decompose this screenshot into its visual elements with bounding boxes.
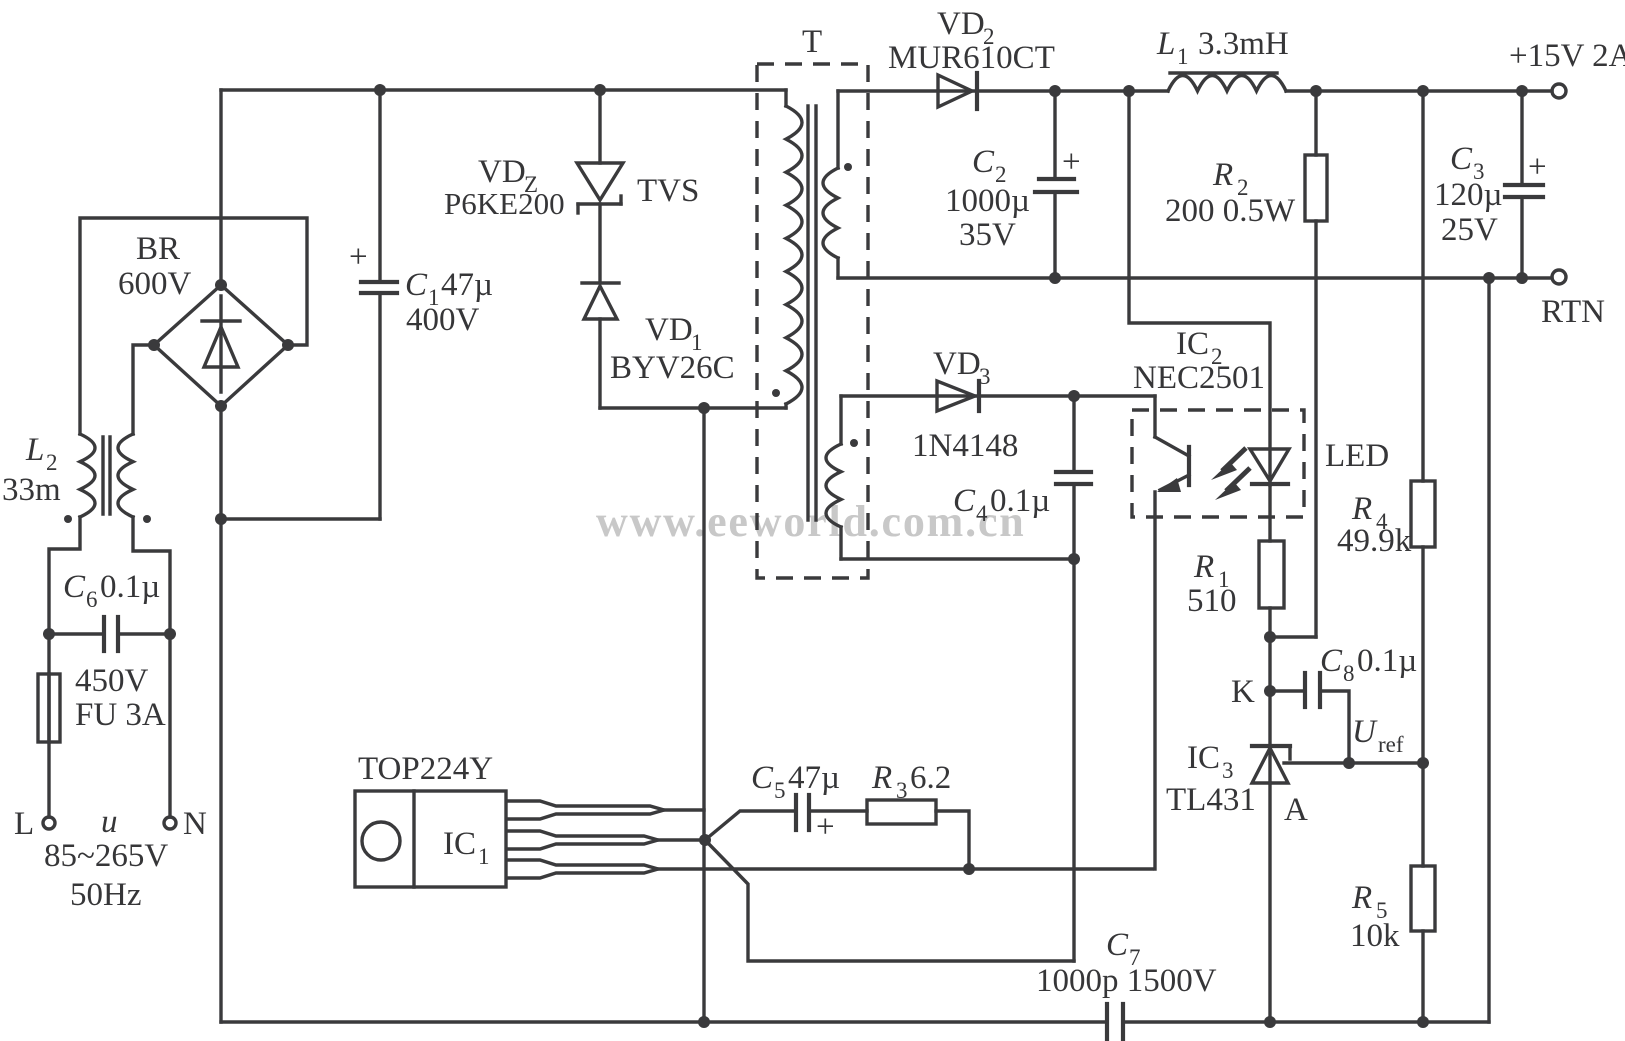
node K bbox=[1264, 685, 1276, 697]
capacitor C6 bbox=[43, 617, 176, 651]
node junction C4 bottom bbox=[1068, 553, 1080, 565]
svg-text:510: 510 bbox=[1187, 583, 1237, 619]
svg-text:P6KE200: P6KE200 bbox=[444, 186, 565, 221]
resistor R2 bbox=[1305, 91, 1327, 637]
optocoupler IC2 dashed box bbox=[1132, 410, 1304, 517]
svg-text:+: + bbox=[1528, 149, 1547, 185]
svg-text:BYV26C: BYV26C bbox=[610, 350, 735, 386]
wire RTN to bottom right bbox=[1487, 278, 1490, 1022]
svg-text:L: L bbox=[14, 806, 34, 842]
svg-text:LED: LED bbox=[1325, 438, 1389, 474]
svg-text:50Hz: 50Hz bbox=[70, 877, 141, 913]
node junction C3 bottom bbox=[1516, 272, 1528, 284]
node junction R5 rail bbox=[1417, 1016, 1429, 1028]
terminal +15V 2A bbox=[1552, 84, 1566, 98]
svg-text:3: 3 bbox=[1222, 758, 1234, 783]
wire pin1 to drain line bbox=[664, 808, 704, 811]
svg-text:600V: 600V bbox=[118, 266, 192, 302]
opto phototransistor bbox=[1155, 437, 1189, 869]
svg-text:0.1µ: 0.1µ bbox=[990, 483, 1050, 519]
svg-text:5: 5 bbox=[774, 778, 786, 803]
node junction R4/R5 bbox=[1417, 757, 1429, 769]
wire C1 bottom horizontal bbox=[221, 517, 380, 520]
capacitor C5 bbox=[796, 795, 835, 845]
shunt regulator IC3 TL431 bbox=[1252, 691, 1290, 1022]
svg-text:T: T bbox=[802, 24, 822, 60]
svg-text:3: 3 bbox=[896, 778, 908, 803]
svg-text:49.9k: 49.9k bbox=[1337, 523, 1412, 559]
svg-text:4: 4 bbox=[976, 501, 988, 526]
node junction drain wire top bbox=[698, 402, 710, 414]
pin 1 drain bbox=[506, 801, 664, 819]
svg-text:C: C bbox=[953, 483, 976, 519]
node source junction bbox=[699, 834, 711, 846]
svg-text:IC: IC bbox=[1187, 740, 1220, 776]
wire bridge right vertex to L2 left winding bbox=[80, 218, 307, 434]
svg-text:IC: IC bbox=[1176, 326, 1209, 362]
svg-text:C: C bbox=[1106, 927, 1129, 963]
svg-text:+: + bbox=[349, 239, 368, 275]
transformer lower secondary winding bbox=[826, 396, 858, 559]
wire bridge left vertex to L2 right winding bbox=[133, 345, 154, 434]
svg-text:BR: BR bbox=[136, 231, 180, 267]
wire R3 to control line bbox=[936, 811, 969, 869]
svg-text:N: N bbox=[183, 806, 207, 842]
wire C5 to R3 bbox=[811, 809, 867, 812]
bottom rail right segment bbox=[1123, 1020, 1489, 1023]
transformer core bbox=[806, 106, 809, 520]
wire source to bias return bbox=[705, 840, 1074, 961]
secondary top rail bbox=[838, 89, 1168, 92]
wire source to C5 branch bbox=[705, 811, 794, 840]
svg-text:L: L bbox=[25, 432, 44, 468]
svg-text:R: R bbox=[1351, 880, 1372, 916]
wire lower secondary return bbox=[841, 557, 1074, 560]
svg-text:35V: 35V bbox=[959, 217, 1016, 253]
svg-text:R: R bbox=[871, 760, 892, 796]
svg-text:K: K bbox=[1231, 674, 1255, 710]
svg-text:IC: IC bbox=[443, 826, 476, 862]
RTN rail bbox=[838, 276, 1552, 279]
svg-text:A: A bbox=[1284, 792, 1308, 828]
wire L2 right winding to C6/N bbox=[133, 517, 170, 634]
svg-text:0.1µ: 0.1µ bbox=[1357, 643, 1417, 679]
svg-text:R: R bbox=[1193, 549, 1214, 585]
svg-text:C: C bbox=[1450, 141, 1473, 177]
svg-text:VD: VD bbox=[478, 154, 526, 190]
transformer T dashed box bbox=[757, 64, 868, 578]
svg-text:C: C bbox=[972, 144, 995, 180]
node junction R1/R2 bottom bbox=[1264, 631, 1276, 643]
TVS diode VDz bbox=[577, 84, 623, 213]
transformer primary winding bbox=[772, 90, 802, 408]
capacitor C3 bbox=[1505, 91, 1547, 278]
resistor R3 bbox=[867, 800, 936, 824]
svg-text:6.2: 6.2 bbox=[910, 760, 951, 796]
svg-text:450V: 450V bbox=[75, 663, 149, 699]
svg-text:1000p 1500V: 1000p 1500V bbox=[1036, 963, 1217, 999]
svg-text:VD: VD bbox=[645, 312, 693, 348]
svg-text:R: R bbox=[1212, 157, 1233, 193]
svg-text:3: 3 bbox=[979, 364, 991, 389]
svg-text:0.1µ: 0.1µ bbox=[100, 569, 160, 605]
svg-text:1N4148: 1N4148 bbox=[912, 428, 1018, 464]
transformer upper secondary winding bbox=[823, 91, 852, 278]
diode VD2 bbox=[938, 73, 977, 109]
svg-text:L: L bbox=[1156, 26, 1175, 62]
svg-text:+15V 2A: +15V 2A bbox=[1509, 38, 1625, 74]
diode VD1 BYV26C bbox=[582, 204, 619, 408]
svg-text:120µ: 120µ bbox=[1434, 177, 1503, 213]
svg-text:ref: ref bbox=[1378, 732, 1404, 757]
svg-text:TOP224Y: TOP224Y bbox=[358, 751, 493, 787]
svg-text:C: C bbox=[405, 267, 428, 303]
node junction right return bbox=[1483, 272, 1495, 284]
capacitor C1 bbox=[349, 84, 397, 519]
inductor L1 bbox=[1168, 76, 1286, 92]
svg-text:VD: VD bbox=[937, 6, 985, 42]
svg-text:1: 1 bbox=[478, 844, 490, 869]
node junction drain-source rail bbox=[698, 1016, 710, 1028]
svg-text:+: + bbox=[816, 809, 835, 845]
resistor R1 bbox=[1259, 541, 1284, 691]
svg-text:1000µ: 1000µ bbox=[945, 183, 1030, 219]
svg-text:TL431: TL431 bbox=[1166, 782, 1256, 818]
wire ref line bbox=[1284, 761, 1423, 764]
wire bridge bottom vertical bbox=[219, 406, 222, 1022]
svg-text:47µ: 47µ bbox=[788, 760, 840, 796]
resistor R5 bbox=[1411, 763, 1435, 1022]
svg-text:400V: 400V bbox=[406, 302, 480, 338]
svg-text:U: U bbox=[1352, 714, 1378, 750]
node junction R3/control bbox=[963, 863, 975, 875]
capacitor C4 bbox=[1056, 396, 1091, 961]
node junction C1 bottom bbox=[215, 513, 227, 525]
wire left vertical to bridge bbox=[219, 90, 222, 285]
wire R2 bottom link bbox=[1270, 635, 1316, 638]
svg-text:FU 3A: FU 3A bbox=[75, 697, 166, 733]
node junction TL431 anode rail bbox=[1264, 1016, 1276, 1028]
wire VD3 line bbox=[841, 394, 1155, 397]
bridge rectifier BR bbox=[148, 279, 294, 412]
svg-text:NEC2501: NEC2501 bbox=[1133, 360, 1265, 396]
svg-text:47µ: 47µ bbox=[441, 267, 493, 303]
wire pin3 control line bbox=[658, 867, 1152, 870]
wire VD3 to opto collector bbox=[1153, 396, 1156, 437]
svg-text:C: C bbox=[63, 569, 86, 605]
wire VD1 bottom to primary bbox=[600, 406, 786, 409]
node junction opto branch top bbox=[1123, 85, 1135, 97]
node junction C3 top bbox=[1516, 85, 1528, 97]
svg-text:33m: 33m bbox=[2, 472, 61, 508]
wire L2 left winding to C6/fuse bbox=[49, 517, 80, 634]
svg-text:1: 1 bbox=[1177, 44, 1189, 69]
pin 3 control bbox=[506, 860, 658, 878]
node junction R2 top bbox=[1310, 85, 1322, 97]
terminal L bbox=[43, 817, 55, 829]
IC U1 TOP224Y body bbox=[355, 791, 506, 887]
fuse FU bbox=[38, 634, 60, 817]
pin 2 source bbox=[506, 831, 658, 849]
svg-text:+: + bbox=[1062, 144, 1081, 180]
bottom rail left segment bbox=[221, 1020, 1107, 1023]
svg-text:25V: 25V bbox=[1441, 212, 1498, 248]
capacitor C8 bbox=[1270, 673, 1349, 763]
wire top rail primary bbox=[221, 88, 786, 91]
terminal N bbox=[168, 634, 171, 817]
node junction C2 top bbox=[1049, 85, 1061, 97]
diode VD3 bbox=[937, 381, 979, 411]
node junction C4 top bbox=[1068, 390, 1080, 402]
svg-text:R: R bbox=[1351, 491, 1372, 527]
svg-text:MUR610CT: MUR610CT bbox=[888, 40, 1055, 76]
resistor R4 bbox=[1411, 91, 1435, 763]
svg-text:TVS: TVS bbox=[637, 173, 699, 209]
svg-text:RTN: RTN bbox=[1541, 294, 1605, 330]
wire pin2 to source node bbox=[658, 838, 705, 841]
svg-text:u: u bbox=[101, 804, 118, 840]
svg-text:8: 8 bbox=[1343, 661, 1355, 686]
wire opto LED feed bbox=[1129, 91, 1270, 485]
opto LED bbox=[1250, 449, 1289, 541]
svg-text:C: C bbox=[1320, 643, 1343, 679]
svg-text:85~265V: 85~265V bbox=[44, 838, 168, 874]
node junction C2 bottom bbox=[1049, 272, 1061, 284]
svg-text:VD: VD bbox=[933, 346, 981, 382]
svg-text:10k: 10k bbox=[1350, 918, 1400, 954]
capacitor C7 bbox=[1107, 1004, 1123, 1041]
wire drain vertical bbox=[702, 408, 705, 1022]
svg-text:6: 6 bbox=[86, 587, 98, 612]
svg-text:3.3mH: 3.3mH bbox=[1198, 26, 1289, 62]
node junction R4 top bbox=[1417, 85, 1429, 97]
svg-text:C: C bbox=[751, 760, 774, 796]
svg-text:200 0.5W: 200 0.5W bbox=[1165, 193, 1296, 229]
common-mode choke L2 bbox=[64, 434, 151, 523]
opto light arrows bbox=[1211, 448, 1250, 500]
node junction C8 ref bbox=[1343, 757, 1355, 769]
terminal RTN bbox=[1552, 270, 1566, 284]
capacitor C2 bbox=[1035, 91, 1081, 278]
